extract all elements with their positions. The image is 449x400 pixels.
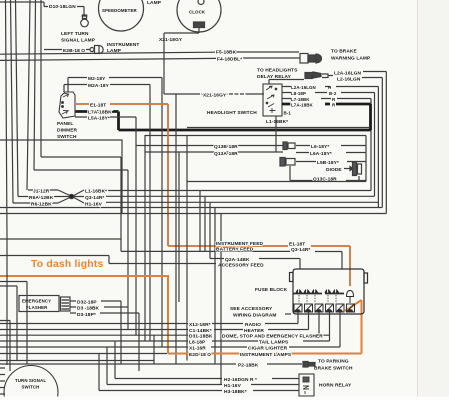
wire L5A-18Y	[75, 117, 136, 335]
wire y360 row	[0, 360, 154, 362]
wire B1 drop from switch	[275, 116, 277, 152]
svg-text:L2-16LGN: L2-16LGN	[337, 77, 361, 83]
svg-text:J1-12R: J1-12R	[33, 189, 50, 195]
svg-text:M2A-18Y: M2A-18Y	[88, 83, 110, 89]
svg-text:L1-16BK*: L1-16BK*	[266, 119, 288, 125]
svg-text:D32-18P: D32-18P	[77, 300, 97, 306]
relay horn relay	[299, 374, 314, 396]
wire H1 row	[107, 384, 299, 386]
svg-text:CLOCK: CLOCK	[189, 10, 206, 15]
wire return y213.5	[0, 213, 386, 215]
svg-text:E2B-18 O: E2B-18 O	[63, 48, 85, 54]
svg-text:LAMP: LAMP	[107, 48, 122, 54]
wire return y135	[145, 135, 366, 137]
fuse dashed drops	[299, 295, 350, 303]
svg-text:B-2: B-2	[329, 91, 337, 96]
svg-text:L7A-18BK: L7A-18BK	[291, 103, 314, 108]
wire E1-18T orange from dimmer	[76, 104, 350, 286]
svg-text:X21-16GY: X21-16GY	[203, 93, 227, 99]
svg-text:PANEL: PANEL	[57, 121, 73, 127]
svg-text:BATTERY FEED: BATTERY FEED	[216, 247, 254, 253]
svg-text:D3 -18BK: D3 -18BK	[77, 306, 100, 312]
wire V x6	[6, 0, 8, 236]
paper right margin	[418, 0, 449, 400]
wire return y207.5	[0, 207, 382, 209]
svg-text:INSTRUMENT FEED: INSTRUMENT FEED	[216, 241, 264, 247]
svg-text:L7-18BK: L7-18BK	[291, 97, 310, 102]
connector Q13B bullet	[283, 142, 295, 150]
svg-text:E1-18T: E1-18T	[289, 242, 305, 248]
svg-text:H3-18BK*: H3-18BK*	[224, 389, 247, 395]
svg-text:L8-18P: L8-18P	[189, 340, 206, 346]
svg-text:L1-16BK*: L1-16BK*	[85, 189, 107, 195]
svg-text:E2D-18 O: E2D-18 O	[189, 352, 211, 358]
wire D3-18BK	[70, 306, 128, 308]
wire D31 DOME row	[0, 334, 330, 336]
diode D1	[344, 162, 362, 176]
wire X12 RADIO row	[0, 323, 298, 325]
svg-text:X21-18GY: X21-18GY	[159, 37, 183, 43]
svg-text:L2A-16LGN: L2A-16LGN	[291, 85, 316, 90]
svg-text:HEATER: HEATER	[244, 328, 264, 334]
svg-text:SIGNAL LAMP: SIGNAL LAMP	[61, 38, 96, 44]
block emergency flasher	[19, 296, 59, 312]
svg-text:F5-18BK: F5-18BK	[216, 50, 237, 56]
svg-text:SEE ACCESSORY: SEE ACCESSORY	[230, 306, 273, 312]
wire M2A-18Y	[64, 85, 150, 342]
fuse clips row	[294, 288, 354, 303]
wire Q2A-14BK	[210, 259, 300, 270]
svg-text:FLASHER: FLASHER	[26, 305, 48, 310]
lamp D10 lead	[77, 7, 84, 16]
svg-text:D3-18P*: D3-18P*	[77, 312, 96, 318]
svg-text:B-1: B-1	[284, 111, 292, 116]
svg-text:H2-16DGN R *: H2-16DGN R *	[224, 377, 257, 383]
turn signal stubs	[0, 368, 5, 394]
lamp left turn signal bulb	[81, 15, 89, 27]
svg-text:WARNING LAMP: WARNING LAMP	[331, 56, 371, 62]
svg-text:TAIL LAMPS: TAIL LAMPS	[259, 340, 289, 346]
wire return thin upper	[0, 128, 369, 141]
block fuse block outline	[290, 269, 368, 314]
headlight switch terminals	[266, 86, 277, 113]
svg-text:L2A-16LGN: L2A-16LGN	[334, 71, 361, 77]
svg-text:R6A-12BK: R6A-12BK	[29, 195, 54, 201]
svg-text:DOME, STOP AND EMERGENCY F: DOME, STOP AND EMERGENCY FLASHER	[222, 334, 323, 340]
svg-text:Q2A-14BK: Q2A-14BK	[225, 257, 250, 263]
svg-text:E1-18T: E1-18T	[90, 103, 106, 109]
wire return y140	[0, 139, 122, 141]
wire V x41	[40, 0, 42, 157]
wire mid cluster verticals	[122, 94, 221, 385]
svg-text:L6A-18Y*: L6A-18Y*	[310, 151, 332, 157]
svg-text:DIMMER: DIMMER	[57, 128, 77, 134]
svg-text:EMERGENCY: EMERGENCY	[22, 299, 51, 304]
wire headlight switch row R1	[282, 99, 371, 191]
svg-text:M2-18Y: M2-18Y	[88, 76, 106, 82]
svg-text:Q3-14R*: Q3-14R*	[85, 195, 104, 201]
wire E2D row	[0, 353, 167, 355]
svg-text:R6-12BK: R6-12BK	[31, 202, 52, 208]
wire H2 row	[115, 378, 299, 380]
wire headlight switch thick row R2	[75, 104, 371, 130]
wire Q13C-18R	[312, 176, 366, 181]
svg-text:H1-16V: H1-16V	[224, 383, 242, 389]
panel dimmer terminals	[62, 94, 70, 115]
wire D32-18P	[70, 301, 121, 364]
wire X1 CIGAR row	[0, 346, 340, 348]
wire group: left vertical harness	[6, 0, 42, 236]
svg-text:BRAKE SWITCH: BRAKE SWITCH	[314, 366, 353, 372]
svg-text:H1-16V: H1-16V	[85, 202, 103, 208]
svg-text:L5A-18Y*: L5A-18Y*	[88, 116, 110, 122]
flasher unit	[61, 297, 71, 311]
svg-text:Q13A-18R: Q13A-18R	[214, 151, 238, 157]
svg-text:FUSE BLOCK: FUSE BLOCK	[255, 287, 288, 293]
wire L1 return y190	[0, 191, 386, 264]
svg-text:DIODE: DIODE	[326, 167, 342, 173]
wire V x28	[27, 0, 30, 190]
svg-text:X12-18R*: X12-18R*	[189, 322, 211, 328]
svg-text:F4-18DBL*: F4-18DBL*	[217, 57, 242, 63]
bottom mid verticals	[99, 335, 154, 390]
wire group: top horizontals	[0, 2, 300, 60]
svg-text:TURN SIGNAL: TURN SIGNAL	[15, 378, 46, 383]
svg-text:TO HEADLIGHTS: TO HEADLIGHTS	[257, 68, 298, 74]
svg-text:D10-18LGN: D10-18LGN	[49, 4, 76, 10]
fuse link squares row	[294, 304, 355, 312]
svg-text:R: R	[332, 97, 336, 102]
gauge clock	[177, 0, 221, 32]
wire V x11	[11, 0, 14, 203]
svg-text:HORN RELAY: HORN RELAY	[319, 383, 352, 389]
wire F4-18DBL to brake lamp	[0, 58, 300, 60]
wire headlight switch row H	[282, 87, 378, 208]
svg-text:RADIO: RADIO	[245, 322, 261, 328]
svg-text:L6-18Y*: L6-18Y*	[311, 144, 329, 150]
wire H3 row	[99, 390, 299, 392]
op: panel dimmer switch body	[59, 92, 75, 118]
op: headlight switch body U-HS	[263, 84, 282, 116]
svg-text:H: H	[328, 85, 331, 90]
svg-text:L5B-18Y*: L5B-18Y*	[317, 160, 339, 166]
svg-text:SPEEDOMETER: SPEEDOMETER	[102, 8, 137, 13]
svg-text:TO PARKING: TO PARKING	[318, 359, 349, 365]
wire staircase left	[34, 157, 128, 330]
wire Q13B-18R	[136, 145, 366, 147]
svg-text:Q13B-18R: Q13B-18R	[214, 144, 238, 150]
svg-text:R: R	[332, 103, 336, 108]
svg-text:L7A-18BK: L7A-18BK	[88, 110, 112, 116]
connector headlight delay relay plug	[305, 72, 328, 79]
connector brake warning lamp	[300, 54, 322, 64]
switch turn signal	[4, 366, 58, 400]
wire F5-18BK	[0, 52, 299, 54]
svg-text:ACCESSORY FEED: ACCESSORY FEED	[218, 263, 264, 269]
wire left-low frame	[0, 236, 27, 371]
svg-text:SWITCH: SWITCH	[57, 134, 77, 140]
wire D3-18P	[70, 313, 139, 371]
connector clock base	[194, 22, 205, 28]
wire V x16	[16, 0, 19, 197]
paper bottom margin	[0, 397, 449, 400]
wire battery feed step	[0, 238, 121, 240]
svg-text:L8-18P: L8-18P	[291, 91, 306, 96]
wire P2-18BK row	[0, 363, 302, 365]
wire Q13A-18R	[145, 151, 366, 154]
svg-text:TO BRAKE: TO BRAKE	[331, 49, 357, 55]
wire L8 TAIL row	[0, 340, 330, 342]
svg-text:SWITCH: SWITCH	[22, 385, 40, 390]
svg-text:P2-18BK: P2-18BK	[238, 363, 259, 369]
wire V x34	[34, 0, 36, 170]
wire M2-18Y	[68, 78, 162, 348]
svg-text:INSTRUMENT: INSTRUMENT	[107, 42, 139, 48]
connector L5B bullet	[280, 158, 366, 181]
svg-text:D31-18BK: D31-18BK	[189, 334, 213, 340]
wire top-left	[0, 2, 48, 7]
wire bracket to switch	[269, 72, 386, 214]
svg-text:INSTRUMENT LAMPS: INSTRUMENT LAMPS	[240, 352, 292, 358]
svg-text:CIGAR LIGHTER: CIGAR LIGHTER	[248, 346, 288, 352]
wire C1 HEATER row	[0, 329, 309, 331]
wire box around diode group	[187, 136, 366, 182]
lamp instrument-lamp socket	[44, 46, 103, 54]
wire accessory feed step	[0, 256, 216, 264]
wire orange to-dash-lights	[0, 275, 362, 354]
gauge speedometer	[99, 0, 144, 31]
svg-text:LAMP: LAMP	[147, 0, 162, 6]
svg-text:LEFT TURN: LEFT TURN	[61, 31, 89, 37]
wire battery feed	[121, 251, 342, 269]
svg-text:Q3-14R*: Q3-14R*	[291, 247, 310, 253]
svg-text:HEADLIGHT SWITCH: HEADLIGHT SWITCH	[207, 110, 257, 116]
svg-text:C1-14BK*: C1-14BK*	[189, 328, 212, 334]
svg-text:To dash lights: To dash lights	[31, 259, 103, 270]
svg-text:X1-16R: X1-16R	[189, 346, 206, 352]
connector parking brake	[303, 362, 315, 368]
wire X21 from clock	[164, 28, 264, 95]
junction X with node dot	[13, 190, 84, 203]
wire Q3 return y196.3	[106, 195, 375, 197]
wire fuse outputs down	[298, 312, 340, 347]
svg-text:WIRING DIAGRAM: WIRING DIAGRAM	[233, 313, 277, 319]
wire headlight switch row B-2	[282, 93, 375, 197]
wire H1 return y202.3	[106, 201, 378, 203]
